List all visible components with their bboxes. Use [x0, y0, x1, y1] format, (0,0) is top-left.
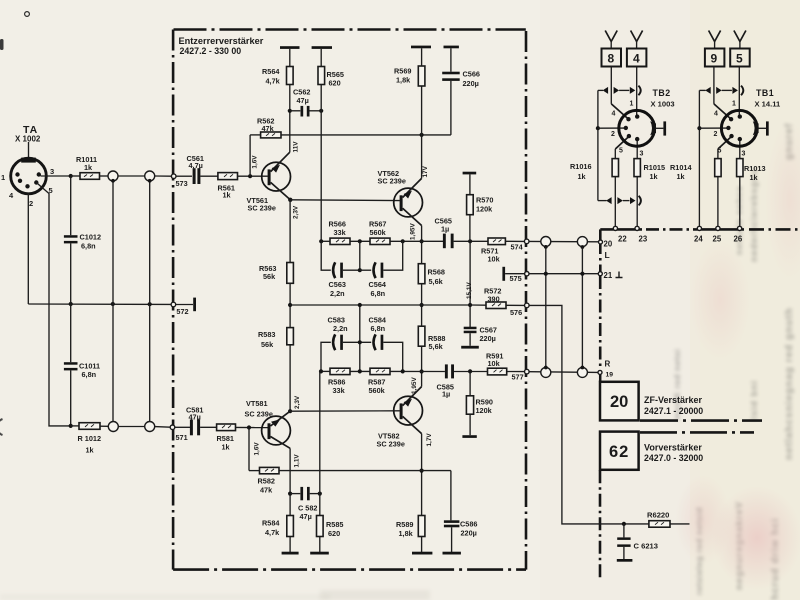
- svg-text:22: 22: [618, 235, 627, 244]
- svg-text:nederhcierebsgnu: nederhcierebsgnu: [749, 168, 759, 262]
- svg-text:TB1: TB1: [756, 88, 774, 98]
- svg-text:25: 25: [713, 235, 722, 244]
- svg-text:2,2n: 2,2n: [333, 324, 348, 333]
- svg-text:620: 620: [328, 529, 340, 538]
- svg-text:R570: R570: [476, 196, 493, 205]
- svg-text:netsaln nehcs: netsaln nehcs: [734, 185, 744, 255]
- svg-text:VT581: VT581: [246, 399, 268, 408]
- svg-text:571: 571: [176, 433, 188, 442]
- svg-text:1k: 1k: [222, 443, 231, 452]
- svg-text:120k: 120k: [476, 205, 493, 214]
- svg-text:R1013: R1013: [744, 164, 766, 173]
- svg-text:6,8n: 6,8n: [371, 289, 386, 298]
- svg-text:6,8n: 6,8n: [81, 242, 96, 251]
- svg-text:62: 62: [609, 443, 629, 461]
- svg-text:R584: R584: [262, 519, 280, 528]
- svg-text:220µ: 220µ: [461, 529, 477, 538]
- svg-text:20: 20: [610, 393, 628, 411]
- svg-text:1µ: 1µ: [442, 390, 450, 399]
- svg-text:X 14.11: X 14.11: [755, 100, 782, 109]
- svg-text:5,6k: 5,6k: [429, 342, 444, 351]
- svg-text:1,95V: 1,95V: [410, 223, 417, 240]
- svg-text:56k: 56k: [263, 272, 276, 281]
- svg-text:33k: 33k: [334, 228, 347, 237]
- svg-text:47µ: 47µ: [300, 512, 312, 521]
- svg-text:C566: C566: [463, 70, 480, 79]
- svg-text:620: 620: [329, 79, 341, 88]
- svg-text:1,1V: 1,1V: [293, 454, 300, 468]
- svg-text:220µ: 220µ: [463, 79, 479, 88]
- svg-text:L: L: [605, 250, 610, 260]
- svg-text:47k: 47k: [260, 486, 273, 495]
- svg-text:6,8n: 6,8n: [82, 370, 97, 379]
- svg-text:C1012: C1012: [80, 233, 102, 242]
- svg-text:560k: 560k: [369, 386, 386, 395]
- svg-text:1: 1: [1, 173, 5, 182]
- svg-text:C564: C564: [369, 280, 387, 289]
- svg-text:1,7V: 1,7V: [426, 433, 433, 447]
- svg-text:R589: R589: [396, 520, 413, 529]
- svg-text:120k: 120k: [476, 406, 493, 415]
- svg-text:5: 5: [718, 148, 722, 155]
- svg-text:Vorverstärker: Vorverstärker: [644, 443, 702, 453]
- svg-text:1,8k: 1,8k: [399, 529, 414, 538]
- svg-text:R: R: [605, 360, 611, 369]
- svg-text:2,2n: 2,2n: [330, 289, 345, 298]
- svg-text:574: 574: [511, 243, 524, 252]
- svg-text:15,1V: 15,1V: [466, 282, 473, 299]
- svg-text:SC 239e: SC 239e: [378, 177, 406, 186]
- svg-text:2,3V: 2,3V: [293, 205, 300, 219]
- svg-text:X 1002: X 1002: [15, 135, 41, 144]
- svg-text:TB2: TB2: [653, 88, 671, 98]
- svg-text:1k: 1k: [750, 173, 759, 182]
- svg-text:1k: 1k: [223, 191, 232, 200]
- svg-text:R1015: R1015: [644, 163, 666, 172]
- svg-text:R6220: R6220: [647, 511, 669, 520]
- svg-text:21: 21: [604, 271, 613, 280]
- svg-text:R1014: R1014: [670, 163, 692, 172]
- svg-text:11V: 11V: [293, 141, 300, 153]
- svg-text:1: 1: [732, 101, 736, 108]
- svg-text:1,95V: 1,95V: [411, 377, 418, 394]
- svg-text:575: 575: [510, 274, 522, 283]
- svg-text:3: 3: [640, 151, 644, 158]
- svg-text:R 1012: R 1012: [78, 434, 102, 443]
- svg-text:1,6V: 1,6V: [251, 155, 258, 169]
- svg-text:2427.1 - 20000: 2427.1 - 20000: [644, 406, 703, 416]
- svg-text:Entzerrerverstärker: Entzerrerverstärker: [179, 36, 264, 46]
- svg-text:R582: R582: [258, 477, 275, 486]
- svg-text:8: 8: [608, 52, 615, 66]
- svg-text:4,7k: 4,7k: [265, 528, 280, 537]
- svg-text:4,7µ: 4,7µ: [189, 161, 203, 170]
- svg-text:1k: 1k: [677, 172, 686, 181]
- svg-text:6,8n: 6,8n: [371, 324, 386, 333]
- svg-text:R569: R569: [394, 67, 411, 76]
- svg-text:tsid bni: tsid bni: [749, 380, 759, 420]
- svg-text:1k: 1k: [84, 163, 93, 172]
- svg-text:SC 239e: SC 239e: [245, 410, 273, 419]
- svg-text:2427.2 - 330 00: 2427.2 - 330 00: [180, 46, 242, 56]
- svg-text:1µ: 1µ: [441, 225, 449, 234]
- svg-text:1,8k: 1,8k: [396, 76, 411, 85]
- svg-text:R583: R583: [258, 330, 275, 339]
- svg-text:1k: 1k: [86, 446, 95, 455]
- svg-text:33k: 33k: [333, 386, 346, 395]
- svg-text:C 6213: C 6213: [634, 542, 659, 551]
- svg-text:577: 577: [512, 373, 524, 382]
- svg-text:5,6k: 5,6k: [429, 277, 444, 286]
- svg-text:9: 9: [711, 52, 718, 66]
- svg-text:47k: 47k: [262, 124, 275, 133]
- svg-text:4: 4: [714, 111, 718, 118]
- svg-text:573: 573: [176, 179, 188, 188]
- svg-text:2: 2: [611, 131, 615, 138]
- svg-text:17V: 17V: [422, 165, 429, 177]
- svg-text:220µ: 220µ: [480, 334, 496, 343]
- svg-text:C563: C563: [329, 280, 346, 289]
- svg-text:1,6V: 1,6V: [253, 442, 260, 456]
- svg-text:3: 3: [742, 151, 746, 158]
- svg-text:4: 4: [633, 52, 640, 66]
- svg-text:26: 26: [734, 235, 743, 244]
- svg-text:4,7k: 4,7k: [266, 77, 281, 86]
- svg-text:C586: C586: [460, 520, 477, 529]
- svg-text:1: 1: [630, 101, 634, 108]
- svg-text:47µ: 47µ: [297, 96, 309, 105]
- svg-text:10k: 10k: [488, 255, 501, 264]
- svg-text:X 1003: X 1003: [651, 100, 675, 109]
- svg-text:2,3V: 2,3V: [294, 395, 301, 409]
- svg-text:3: 3: [50, 167, 54, 176]
- svg-text:20: 20: [604, 240, 613, 249]
- svg-text:R568: R568: [428, 268, 445, 277]
- svg-text:1k: 1k: [578, 172, 587, 181]
- svg-text:SC 239e: SC 239e: [377, 440, 405, 449]
- svg-text:R564: R564: [262, 67, 280, 76]
- svg-text:2: 2: [714, 131, 718, 138]
- svg-text:2: 2: [29, 199, 33, 208]
- svg-text:netlahcsniegnag red gnuth: netlahcsniegnag red gnuth: [784, 307, 795, 460]
- svg-text:R1016: R1016: [570, 162, 592, 171]
- svg-text:390: 390: [488, 295, 500, 304]
- svg-text:47µ: 47µ: [189, 413, 201, 422]
- svg-text:56k: 56k: [261, 340, 274, 349]
- svg-text:576: 576: [510, 308, 522, 317]
- svg-text:5: 5: [619, 148, 623, 155]
- svg-text:19: 19: [606, 372, 614, 379]
- svg-text:ZF-Verstärker: ZF-Verstärker: [644, 395, 703, 405]
- svg-text:23: 23: [639, 235, 648, 244]
- svg-text:5: 5: [736, 52, 743, 66]
- svg-text:SC 239e: SC 239e: [248, 204, 276, 213]
- svg-text:5: 5: [49, 186, 53, 195]
- svg-text:24: 24: [694, 235, 703, 244]
- svg-text:10k: 10k: [488, 359, 501, 368]
- svg-text:572: 572: [176, 307, 188, 316]
- svg-text:1k: 1k: [650, 172, 659, 181]
- svg-text:R585: R585: [326, 520, 343, 529]
- svg-text:4: 4: [612, 111, 616, 118]
- svg-text:560k: 560k: [370, 228, 387, 237]
- svg-text:2427.0 - 32000: 2427.0 - 32000: [644, 453, 703, 463]
